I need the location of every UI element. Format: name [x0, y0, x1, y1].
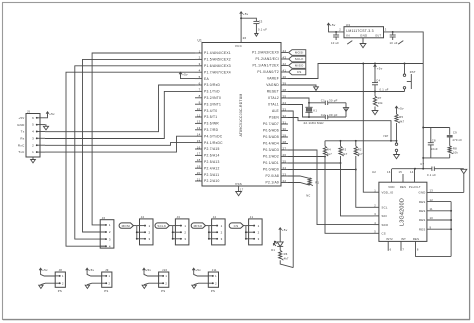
svg-text:C7: C7	[420, 162, 424, 166]
svg-text:42: 42	[283, 62, 287, 66]
svg-text:C8: C8	[432, 139, 436, 143]
wire XTAL1	[288, 105, 309, 118]
svg-text:SCLK: SCLK	[295, 57, 304, 61]
svg-text:P2.2/A10: P2.2/A10	[204, 179, 220, 183]
svg-text:Tx: Tx	[21, 130, 25, 134]
svg-text:R5: R5	[399, 115, 403, 119]
U1 left pin 16 P2.7/A15	[195, 145, 220, 151]
wire P1.6 to J6 pin3	[75, 66, 195, 239]
capacitor C6 10uF	[390, 31, 404, 45]
svg-text:EA: EA	[204, 77, 209, 81]
svg-text:30: 30	[283, 127, 287, 131]
svg-text:INT2: INT2	[386, 237, 393, 241]
U1 right pin 33 ALE	[272, 107, 288, 113]
svg-text:PLLFILT: PLLFILT	[409, 185, 421, 189]
svg-text:9: 9	[199, 101, 201, 105]
svg-text:4k7: 4k7	[284, 257, 289, 261]
svg-text:2: 2	[258, 230, 260, 234]
svg-text:RxC: RxC	[18, 143, 25, 147]
svg-text:3: 3	[32, 136, 34, 140]
svg-text:P3.2/INT0: P3.2/INT0	[204, 96, 221, 100]
svg-text:4: 4	[374, 221, 376, 225]
resistor R2 4k7	[354, 141, 363, 171]
svg-text:P1.6/AN6/CEX3: P1.6/AN6/CEX3	[204, 64, 231, 68]
U1 left pin 6 P3.0/RxD	[195, 81, 220, 87]
svg-text:NC: NC	[306, 194, 310, 198]
svg-text:26: 26	[243, 36, 247, 40]
U2 left pin 5 CS	[374, 230, 386, 236]
svg-text:XTAL1: XTAL1	[268, 103, 279, 107]
U1 left pin 2 P1.5/AN5/CEX2	[195, 56, 231, 62]
svg-text:PS: PS	[104, 289, 108, 293]
U1 left pin 21 P2.2/A10	[195, 177, 220, 183]
resistor R1 (NC) on P2.0/P2.1	[288, 176, 319, 198]
U1 left pin 4 P1.7/AN7/CEX4	[195, 69, 231, 75]
svg-text:RES: RES	[419, 227, 426, 231]
svg-text:R8: R8	[453, 146, 457, 150]
svg-text:2: 2	[215, 281, 217, 285]
svg-text:2: 2	[221, 230, 223, 234]
svg-text:U1: U1	[198, 39, 203, 43]
svg-text:19: 19	[197, 165, 201, 169]
svg-text:ISP: ISP	[384, 134, 389, 138]
net label MOSI at U1	[289, 50, 306, 56]
svg-text:15: 15	[399, 170, 403, 174]
VAGND ground	[288, 85, 318, 90]
svg-text:3: 3	[221, 237, 223, 241]
svg-text:2: 2	[374, 204, 376, 208]
U2 reserved pins bus	[450, 202, 452, 257]
U2 left pin 2 SCL	[374, 204, 388, 210]
svg-text:+5v: +5v	[398, 106, 404, 110]
J5 ground pin5	[43, 125, 48, 130]
svg-text:14: 14	[410, 170, 414, 174]
connector J4 with net label MOSI	[119, 215, 153, 245]
svg-text:4k7: 4k7	[327, 152, 332, 156]
U1 left pin 1 P1.4/AN4/CEX1	[195, 49, 231, 55]
svg-text:C1: C1	[321, 99, 325, 103]
resistor R6 4k7	[279, 246, 294, 267]
U1 right pin 32 PSEN	[269, 114, 288, 120]
svg-text:SCLK: SCLK	[157, 224, 166, 228]
svg-text:7: 7	[199, 88, 201, 92]
U1 right pin 30 P0.6/AD6	[263, 127, 288, 133]
J6 pin 1	[100, 223, 111, 227]
svg-text:3: 3	[199, 62, 201, 66]
svg-text:10nF: 10nF	[431, 147, 438, 151]
U3 ground pin	[360, 38, 366, 48]
svg-text:22: 22	[283, 179, 287, 183]
filter bottom rail	[422, 157, 449, 159]
svg-text:16: 16	[387, 170, 391, 174]
svg-text:P2.0/A8: P2.0/A8	[266, 174, 279, 178]
svg-text:4k7: 4k7	[358, 152, 363, 156]
svg-text:INT: INT	[401, 237, 406, 241]
svg-text:RES: RES	[413, 237, 419, 241]
svg-text:C2: C2	[321, 113, 325, 117]
svg-text:C9: C9	[453, 131, 457, 135]
U1 left pin 8 P3.2/INT0	[195, 94, 221, 100]
svg-text:P1.7/AN7/CEX4: P1.7/AN7/CEX4	[204, 70, 231, 74]
svg-text:3: 3	[374, 212, 376, 216]
U2 right pin 11 RES	[419, 207, 451, 213]
wire P0.1 to gyro SDI	[288, 163, 374, 216]
svg-text:11: 11	[197, 113, 201, 117]
svg-text:PS: PS	[58, 289, 62, 293]
connector J2 with net label MISO	[191, 215, 225, 245]
svg-text:RST: RST	[410, 70, 416, 74]
svg-text:D1: D1	[271, 248, 275, 252]
power connector J10 (PS)	[142, 268, 169, 293]
U1 right pin 22 P2.1/A9	[266, 179, 288, 185]
svg-text:R4: R4	[327, 148, 331, 152]
U2 pin 6 INT2	[388, 241, 391, 251]
U1 VSS pin 17 ground	[236, 186, 244, 196]
svg-text:1: 1	[374, 188, 376, 192]
U2 pin 16 VDD	[387, 169, 392, 183]
svg-text:13: 13	[430, 189, 434, 193]
U3 input +5v pin 2	[327, 23, 344, 32]
U1 left pin 17 P2.6/A14	[195, 152, 220, 158]
U1 right pin 27 P0.3/AD3	[263, 146, 288, 152]
capacitor C8 10nF	[422, 127, 449, 158]
svg-text:43: 43	[283, 55, 287, 59]
svg-text:+5v: +5v	[243, 12, 249, 16]
svg-text:4: 4	[199, 69, 201, 73]
+5v on reset rail	[374, 63, 383, 71]
U1 right pin 42 P1.1/AN1/T2EX	[252, 62, 288, 68]
svg-text:2: 2	[149, 230, 151, 234]
svg-text:P3.0/RxD: P3.0/RxD	[204, 83, 220, 87]
svg-text:MOSI: MOSI	[295, 51, 304, 55]
svg-text:K1: K1	[313, 109, 317, 113]
wire RESET	[288, 91, 405, 93]
svg-text:3: 3	[149, 237, 151, 241]
svg-text:2: 2	[199, 56, 201, 60]
svg-text:P0.7/AD7: P0.7/AD7	[263, 122, 279, 126]
U1 left pin 14 P4.0/TxDC	[195, 133, 223, 139]
svg-text:2: 2	[109, 281, 111, 285]
svg-text:VDD_IO: VDD_IO	[382, 190, 394, 194]
svg-text:0.1 uF: 0.1 uF	[427, 173, 436, 177]
svg-text:MISO: MISO	[295, 64, 304, 68]
svg-text:U3: U3	[346, 23, 350, 27]
wire ALE to LED chain	[288, 111, 293, 268]
svg-text:P1.0/AN0/T2: P1.0/AN0/T2	[257, 70, 279, 74]
svg-text:26: 26	[283, 153, 287, 157]
svg-text:+5v: +5v	[42, 268, 48, 272]
U1 left pin 20 P2.3/A11	[195, 171, 219, 177]
svg-text:RES: RES	[400, 185, 406, 189]
connector J5 (UART header)	[26, 110, 40, 157]
svg-text:R1: R1	[315, 180, 319, 184]
svg-text:9: 9	[430, 225, 432, 229]
svg-text:J5: J5	[27, 110, 31, 114]
svg-text:P1.5/AN5/CEX2: P1.5/AN5/CEX2	[204, 58, 231, 62]
U1 right pin 41 P1.0/AN0/T2	[257, 68, 288, 74]
svg-text:P4.0/TxDC: P4.0/TxDC	[204, 134, 223, 138]
svg-text:P0.3/AD3: P0.3/AD3	[263, 148, 279, 152]
U1 left pin 5 EA	[195, 75, 209, 81]
svg-text:20: 20	[197, 171, 201, 175]
svg-text:P2.5/A13: P2.5/A13	[204, 160, 220, 164]
svg-text:P0.5/AD5: P0.5/AD5	[263, 135, 279, 139]
voltage regulator U3 LM1117CST-3.3	[344, 23, 384, 38]
svg-text:4k7: 4k7	[399, 119, 404, 123]
svg-text:P4.1/RxDC: P4.1/RxDC	[204, 141, 223, 145]
svg-text:25: 25	[283, 94, 287, 98]
svg-text:J11: J11	[212, 268, 217, 272]
svg-text:1: 1	[184, 224, 186, 228]
crystal caps ground	[343, 103, 348, 117]
svg-text:P1.4/AN4/CEX1: P1.4/AN4/CEX1	[204, 51, 231, 55]
svg-text:4: 4	[32, 130, 34, 134]
U2 pin 7 INT	[401, 241, 404, 251]
U1 right pin 28 RESET	[267, 88, 288, 94]
svg-text:2: 2	[339, 27, 341, 31]
svg-text:RES: RES	[419, 218, 426, 222]
svg-text:3: 3	[109, 237, 111, 241]
svg-text:P0.6/AD6: P0.6/AD6	[263, 129, 279, 133]
wire Tx to P3.0/RxD	[45, 85, 195, 132]
U1 right pin 25 P0.1/AD1	[263, 159, 288, 165]
svg-text:29: 29	[283, 133, 287, 137]
svg-text:31: 31	[283, 120, 287, 124]
U1 right pin 43 P1.2/AN2/ECI	[255, 55, 288, 61]
svg-text:3: 3	[258, 237, 260, 241]
svg-text:1: 1	[221, 224, 223, 228]
U1 right pin 29 P0.5/AD5	[263, 133, 288, 139]
svg-text:+5v: +5v	[195, 268, 201, 272]
J5 shield ground	[31, 157, 36, 163]
svg-text:6: 6	[390, 247, 392, 251]
svg-text:10 uF: 10 uF	[390, 41, 398, 45]
svg-text:8: 8	[199, 94, 201, 98]
svg-text:C4: C4	[376, 79, 380, 83]
svg-text:44: 44	[283, 49, 287, 53]
svg-text:16: 16	[197, 145, 201, 149]
J5 pin 5 GND	[17, 123, 45, 127]
svg-text:1: 1	[165, 274, 167, 278]
svg-text:MISO: MISO	[194, 224, 203, 228]
wire RxC to P4.1/RxDC	[45, 143, 195, 146]
svg-text:2: 2	[184, 230, 186, 234]
svg-text:J4: J4	[141, 215, 145, 219]
svg-text:10 uF: 10 uF	[331, 41, 339, 45]
svg-text:P1.3/AN3/CEX0: P1.3/AN3/CEX0	[252, 51, 279, 55]
wire VAREF to 3.3V line	[288, 64, 423, 79]
svg-text:1: 1	[199, 49, 201, 53]
power connector J8 (PS)	[39, 268, 66, 293]
net label CS at U1	[289, 69, 306, 75]
svg-text:23: 23	[283, 172, 287, 176]
svg-text:LM1117CST-3.3: LM1117CST-3.3	[346, 29, 373, 33]
wire XTAL2	[288, 98, 309, 107]
capacitor C4 0.1uF	[372, 64, 389, 93]
svg-text:P1.1/AN1/T2EX: P1.1/AN1/T2EX	[252, 64, 279, 68]
capacitor C9 470nF	[447, 128, 463, 146]
wire P1.7 to J6 pin4	[66, 72, 195, 246]
svg-text:6: 6	[32, 116, 34, 120]
U2 pin 15 RES	[399, 170, 404, 182]
svg-text:RES: RES	[419, 209, 426, 213]
svg-text:+5v: +5v	[89, 268, 95, 272]
wire P0.3 to gyro SDO	[288, 150, 374, 225]
svg-text:P3.4/T0: P3.4/T0	[204, 109, 217, 113]
svg-text:RES: RES	[419, 200, 426, 204]
svg-text:1: 1	[258, 224, 260, 228]
svg-text:GND: GND	[419, 191, 426, 195]
svg-text:C3: C3	[259, 20, 263, 24]
svg-text:P0.4/AD4: P0.4/AD4	[263, 142, 279, 146]
U1 right pin 40 VAREF	[267, 75, 288, 81]
wire Rx to P3.1/TxD	[45, 91, 195, 138]
svg-text:SDO: SDO	[382, 223, 389, 227]
svg-text:+5v: +5v	[377, 66, 383, 70]
svg-text:8: 8	[417, 247, 419, 251]
svg-text:P3.7/RD: P3.7/RD	[204, 128, 219, 132]
svg-text:1: 1	[109, 274, 111, 278]
svg-text:470 nF: 470 nF	[452, 138, 462, 142]
svg-text:L3G4200D: L3G4200D	[400, 198, 406, 226]
U2 right pin 10 RES	[419, 216, 451, 222]
J5 pin 4 Tx	[21, 130, 45, 134]
svg-text:5: 5	[32, 123, 34, 127]
svg-text:VCC: VCC	[235, 44, 243, 48]
connector J6	[100, 216, 114, 248]
svg-text:P1.2/AN2/ECI: P1.2/AN2/ECI	[255, 57, 279, 61]
capacitor C5 10uF	[331, 31, 352, 45]
svg-text:AT89C51CC03C-RDTUM: AT89C51CC03C-RDTUM	[239, 93, 243, 136]
U1 left pin 7 P3.1/TxD	[195, 88, 220, 94]
svg-text:10k: 10k	[378, 101, 383, 105]
connector J3 with net label SCLK	[155, 215, 189, 245]
svg-text:P3.3/INT1: P3.3/INT1	[204, 102, 221, 106]
svg-text:+5v: +5v	[182, 72, 188, 76]
U1 right pin 26 P0.2/AD2	[263, 153, 288, 159]
U2 right pin 9 RES	[419, 225, 451, 231]
svg-text:30 pF: 30 pF	[329, 113, 338, 117]
svg-text:J8: J8	[59, 268, 63, 272]
svg-text:24: 24	[283, 101, 287, 105]
svg-text:CS: CS	[234, 224, 239, 228]
U2 left pin 1 VDD_IO	[374, 188, 394, 194]
U1 right pin 24 P0.0/AD0	[263, 166, 288, 172]
U1 left pin 9 P3.3/INT1	[195, 101, 221, 107]
svg-text:+5v: +5v	[282, 228, 288, 232]
svg-text:CS: CS	[297, 70, 302, 74]
svg-text:GND: GND	[360, 34, 368, 38]
svg-text:PS: PS	[161, 289, 165, 293]
svg-text:VAREF: VAREF	[267, 77, 279, 81]
svg-text:13: 13	[197, 126, 201, 130]
U1 right pin 31 P0.7/AD7	[263, 120, 288, 126]
svg-text:J2: J2	[213, 215, 217, 219]
microcontroller U1 AT89C51CC03	[198, 39, 282, 187]
svg-text:CS: CS	[382, 232, 386, 236]
capacitor C7 0.1uF	[392, 162, 464, 177]
svg-text:12: 12	[197, 120, 201, 124]
crystal K1 22.1184 MHz	[305, 107, 317, 117]
svg-text:5: 5	[374, 230, 376, 234]
svg-text:30 pF: 30 pF	[329, 99, 338, 103]
ISP jumper pins	[384, 134, 400, 159]
svg-text:21: 21	[197, 177, 201, 181]
svg-text:R2: R2	[358, 148, 362, 152]
svg-text:ALE: ALE	[272, 109, 280, 113]
svg-text:5: 5	[199, 75, 201, 79]
svg-text:17: 17	[197, 152, 201, 156]
svg-text:P0.2/AD2: P0.2/AD2	[263, 155, 279, 159]
capacitor C1 30pF	[308, 99, 346, 105]
pushbutton RST	[403, 63, 416, 92]
svg-text:P0.0/AD0: P0.0/AD0	[263, 168, 279, 172]
J6 pin 4	[100, 244, 111, 248]
resistor R4 4k7	[323, 141, 332, 158]
svg-text:P3.1/TxD: P3.1/TxD	[204, 90, 220, 94]
svg-text:1: 1	[32, 150, 34, 154]
U3 output pin 3 to 3.3V	[384, 27, 424, 168]
capacitor C3 0.1uF	[241, 18, 267, 36]
wire P1.4 to J6 pin1	[92, 53, 195, 225]
svg-text:P2.1/A9: P2.1/A9	[266, 181, 279, 185]
svg-text:1: 1	[149, 224, 151, 228]
svg-text:4: 4	[109, 244, 111, 248]
svg-text:2: 2	[109, 230, 111, 234]
J5 pin 3 Rx	[20, 136, 45, 140]
wire VDD_IO to 3.3V	[362, 63, 373, 193]
svg-text:39: 39	[283, 81, 287, 85]
svg-text:+5v: +5v	[330, 23, 336, 27]
svg-text:+5v: +5v	[146, 268, 152, 272]
J6 pin 2	[100, 230, 111, 234]
svg-text:28: 28	[283, 88, 287, 92]
svg-text:12: 12	[430, 198, 434, 202]
svg-text:22.1184 MHz: 22.1184 MHz	[304, 121, 325, 125]
U2 pin 14 PLLFILT	[410, 169, 415, 183]
svg-text:J6: J6	[102, 216, 106, 220]
U1 left pin 19 P2.4/A12	[195, 165, 220, 171]
wire TxC to P4.0/TxDC	[45, 136, 195, 152]
U1 right pin 39 VAGND	[266, 81, 288, 87]
svg-text:0.1 uF: 0.1 uF	[258, 28, 267, 32]
J6 pin 3	[100, 237, 111, 241]
connector J1 with net label CS	[229, 215, 262, 245]
J5 +5v feed	[45, 112, 55, 118]
svg-text:R3: R3	[342, 148, 346, 152]
wire P0.0 to gyro SCL	[288, 170, 374, 208]
U1 right pin 25 XTAL2	[268, 94, 288, 100]
svg-text:R7: R7	[378, 96, 382, 100]
svg-text:17: 17	[240, 188, 244, 192]
U2 right pin 12 RES	[419, 198, 451, 204]
U1 left pin 18 P2.5/A13	[195, 158, 220, 164]
svg-text:1: 1	[62, 274, 64, 278]
power connector J9 (PS)	[85, 268, 112, 293]
svg-text:IN: IN	[346, 34, 350, 38]
svg-text:41: 41	[283, 68, 287, 72]
svg-text:3: 3	[385, 27, 387, 31]
svg-text:24: 24	[283, 166, 287, 170]
svg-text:+5V: +5V	[18, 116, 24, 120]
U2 right pin 13 GND	[419, 189, 464, 195]
svg-text:P2.7/A15: P2.7/A15	[204, 147, 220, 151]
net label MISO at U1	[289, 63, 306, 69]
ground right of C7	[461, 169, 467, 192]
svg-text:10: 10	[430, 216, 434, 220]
svg-text:18: 18	[197, 158, 201, 162]
U1 right pin 24 XTAL1	[268, 101, 288, 107]
